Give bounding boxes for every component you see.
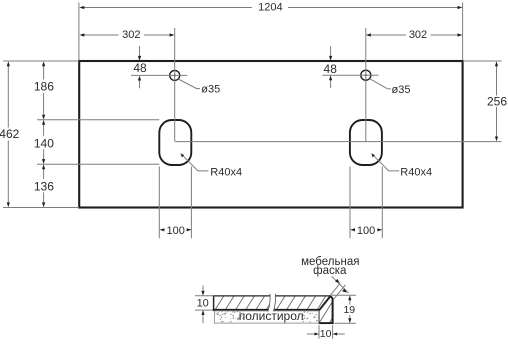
svg-text:10: 10	[320, 328, 332, 340]
svg-text:100: 100	[167, 225, 185, 237]
svg-text:48: 48	[324, 62, 338, 76]
svg-text:ø35: ø35	[201, 83, 220, 95]
svg-text:100: 100	[357, 225, 375, 237]
svg-text:10: 10	[197, 297, 209, 309]
svg-text:48: 48	[133, 61, 147, 75]
svg-text:фаска: фаска	[313, 265, 347, 277]
svg-text:140: 140	[34, 136, 54, 150]
svg-text:462: 462	[0, 127, 20, 141]
svg-text:302: 302	[409, 29, 427, 41]
svg-text:186: 186	[34, 80, 54, 94]
svg-text:136: 136	[34, 179, 54, 193]
svg-text:302: 302	[122, 29, 140, 41]
svg-text:19: 19	[343, 304, 355, 316]
svg-text:R40x4: R40x4	[400, 166, 432, 178]
svg-text:R40x4: R40x4	[210, 166, 242, 178]
svg-text:256: 256	[487, 95, 507, 109]
svg-text:ø35: ø35	[392, 84, 411, 96]
svg-text:1204: 1204	[258, 2, 282, 14]
